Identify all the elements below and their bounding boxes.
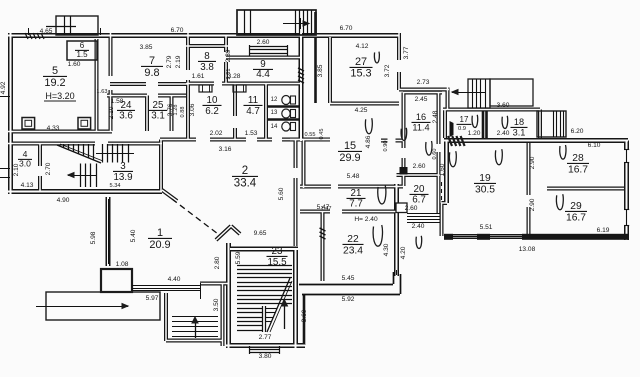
svg-text:0.60: 0.60	[432, 149, 438, 160]
svg-text:1.60: 1.60	[68, 61, 81, 68]
svg-text:29.9: 29.9	[339, 152, 360, 164]
svg-text:22: 22	[347, 234, 359, 245]
svg-text:2.02: 2.02	[210, 130, 223, 137]
svg-text:3.0: 3.0	[19, 159, 31, 169]
svg-text:6.7: 6.7	[412, 195, 426, 206]
svg-text:1.60: 1.60	[439, 163, 446, 176]
svg-text:1.47: 1.47	[321, 206, 332, 212]
svg-text:6.70: 6.70	[171, 27, 184, 34]
svg-text:3.60: 3.60	[301, 309, 308, 322]
svg-text:12: 12	[271, 97, 278, 103]
svg-text:2.73: 2.73	[417, 79, 430, 86]
svg-text:3.72: 3.72	[384, 64, 391, 77]
svg-text:3.6: 3.6	[119, 111, 133, 122]
svg-text:1.28: 1.28	[173, 105, 179, 116]
svg-text:33.4: 33.4	[234, 178, 257, 190]
svg-text:4.30: 4.30	[383, 243, 390, 256]
svg-text:27: 27	[355, 56, 367, 68]
svg-text:9.8: 9.8	[144, 67, 159, 79]
svg-text:0.45: 0.45	[319, 129, 325, 140]
svg-text:3.77: 3.77	[403, 46, 410, 59]
svg-text:18: 18	[514, 117, 524, 127]
svg-text:3.80: 3.80	[259, 353, 272, 360]
svg-text:4.33: 4.33	[47, 125, 60, 132]
svg-text:1.08: 1.08	[116, 261, 129, 268]
svg-text:4.13: 4.13	[21, 182, 34, 189]
svg-text:2.60: 2.60	[257, 39, 270, 46]
svg-text:15: 15	[344, 140, 356, 152]
svg-text:4.92: 4.92	[0, 81, 7, 94]
svg-text:3: 3	[120, 161, 126, 172]
svg-text:16.7: 16.7	[568, 165, 588, 176]
svg-text:4.90: 4.90	[57, 197, 70, 204]
svg-text:0.90: 0.90	[383, 141, 389, 152]
svg-text:1: 1	[157, 227, 163, 239]
svg-text:4.20: 4.20	[400, 246, 407, 259]
svg-text:13.08: 13.08	[519, 246, 536, 253]
svg-text:2.48: 2.48	[432, 110, 439, 123]
svg-text:7.7: 7.7	[349, 199, 363, 210]
svg-text:0.88: 0.88	[180, 107, 186, 118]
svg-text:2.39: 2.39	[225, 49, 232, 62]
svg-text:2: 2	[242, 165, 248, 177]
svg-text:0.9: 0.9	[458, 126, 466, 132]
svg-text:19.2: 19.2	[44, 77, 65, 89]
svg-text:6.10: 6.10	[588, 142, 601, 149]
svg-text:25: 25	[153, 100, 164, 111]
svg-text:5.98: 5.98	[90, 231, 97, 244]
svg-text:13: 13	[271, 110, 278, 116]
svg-text:6.70: 6.70	[340, 25, 353, 32]
svg-text:15.3: 15.3	[350, 68, 371, 80]
svg-text:5.40: 5.40	[130, 229, 137, 242]
svg-text:4.40: 4.40	[168, 276, 181, 283]
svg-text:2.80: 2.80	[214, 256, 221, 269]
svg-text:1.63: 1.63	[97, 89, 108, 95]
svg-text:3.1: 3.1	[151, 111, 165, 122]
svg-text:30.5: 30.5	[475, 185, 495, 196]
svg-text:5.34: 5.34	[110, 183, 121, 189]
svg-text:23.4: 23.4	[343, 246, 363, 257]
svg-text:2.60: 2.60	[405, 205, 418, 212]
svg-text:5.60: 5.60	[278, 187, 285, 200]
svg-text:2.90: 2.90	[529, 156, 536, 169]
svg-text:4.7: 4.7	[246, 106, 260, 117]
svg-text:4.86: 4.86	[365, 135, 372, 148]
svg-text:7: 7	[149, 55, 155, 67]
svg-text:3.85: 3.85	[317, 64, 324, 77]
svg-text:4.65: 4.65	[40, 28, 53, 35]
svg-text:5.97: 5.97	[146, 295, 159, 302]
svg-text:2.40: 2.40	[412, 223, 425, 230]
svg-text:19: 19	[479, 173, 491, 184]
svg-text:3.16: 3.16	[219, 146, 232, 153]
svg-text:5: 5	[52, 65, 58, 77]
svg-text:5.45: 5.45	[342, 275, 355, 282]
svg-text:20: 20	[414, 184, 425, 195]
svg-text:1.5: 1.5	[76, 50, 88, 59]
svg-text:3.85: 3.85	[140, 44, 153, 51]
svg-text:11.4: 11.4	[412, 123, 429, 133]
svg-text:29: 29	[570, 201, 582, 212]
svg-text:1.58: 1.58	[111, 98, 124, 105]
svg-text:2.10: 2.10	[108, 106, 115, 119]
svg-text:16.7: 16.7	[566, 213, 586, 224]
svg-text:6.2: 6.2	[205, 106, 219, 117]
svg-text:0.55: 0.55	[305, 132, 316, 138]
svg-text:23: 23	[272, 246, 283, 257]
svg-text:6.20: 6.20	[571, 128, 584, 135]
svg-text:2.90: 2.90	[529, 198, 536, 211]
svg-text:2.40: 2.40	[497, 130, 510, 137]
svg-text:5.59: 5.59	[235, 251, 242, 264]
svg-text:2.77: 2.77	[259, 334, 272, 341]
svg-text:3.1: 3.1	[513, 128, 526, 138]
svg-text:5.51: 5.51	[480, 224, 493, 231]
svg-text:6.19: 6.19	[597, 227, 610, 234]
svg-text:2.79: 2.79	[166, 55, 173, 68]
svg-text:20.9: 20.9	[149, 239, 170, 251]
svg-text:1.20: 1.20	[468, 130, 481, 137]
svg-text:13.9: 13.9	[113, 172, 132, 183]
svg-text:H=3.20: H=3.20	[45, 91, 74, 101]
svg-text:14: 14	[271, 124, 278, 130]
svg-text:28: 28	[572, 153, 584, 164]
svg-text:4.12: 4.12	[356, 43, 369, 50]
svg-text:2.10: 2.10	[13, 163, 20, 176]
svg-text:4.25: 4.25	[355, 107, 368, 114]
svg-text:4.4: 4.4	[256, 69, 270, 80]
svg-text:1.61: 1.61	[192, 73, 205, 80]
svg-text:11: 11	[248, 95, 258, 106]
svg-text:6: 6	[80, 41, 85, 50]
svg-text:15.5: 15.5	[267, 257, 287, 268]
svg-text:3.06: 3.06	[189, 103, 196, 116]
svg-text:2.31: 2.31	[226, 69, 232, 80]
svg-text:2.60: 2.60	[413, 163, 426, 170]
svg-text:9.65: 9.65	[254, 230, 267, 237]
svg-text:8: 8	[204, 51, 210, 62]
svg-text:16: 16	[416, 112, 426, 122]
svg-text:1.53: 1.53	[245, 130, 258, 137]
svg-text:17: 17	[460, 115, 469, 124]
svg-text:10: 10	[207, 95, 218, 106]
svg-text:5.92: 5.92	[342, 296, 355, 303]
svg-text:3.60: 3.60	[497, 102, 510, 109]
svg-text:3.50: 3.50	[213, 298, 220, 311]
svg-text:21: 21	[351, 188, 362, 199]
svg-text:4: 4	[23, 149, 28, 159]
svg-text:3.8: 3.8	[200, 62, 214, 73]
svg-text:2.70: 2.70	[45, 162, 52, 175]
svg-text:2.19: 2.19	[175, 55, 182, 68]
svg-text:H= 2.40: H= 2.40	[354, 216, 378, 223]
svg-text:2.45: 2.45	[415, 96, 428, 103]
svg-text:5.48: 5.48	[347, 173, 360, 180]
